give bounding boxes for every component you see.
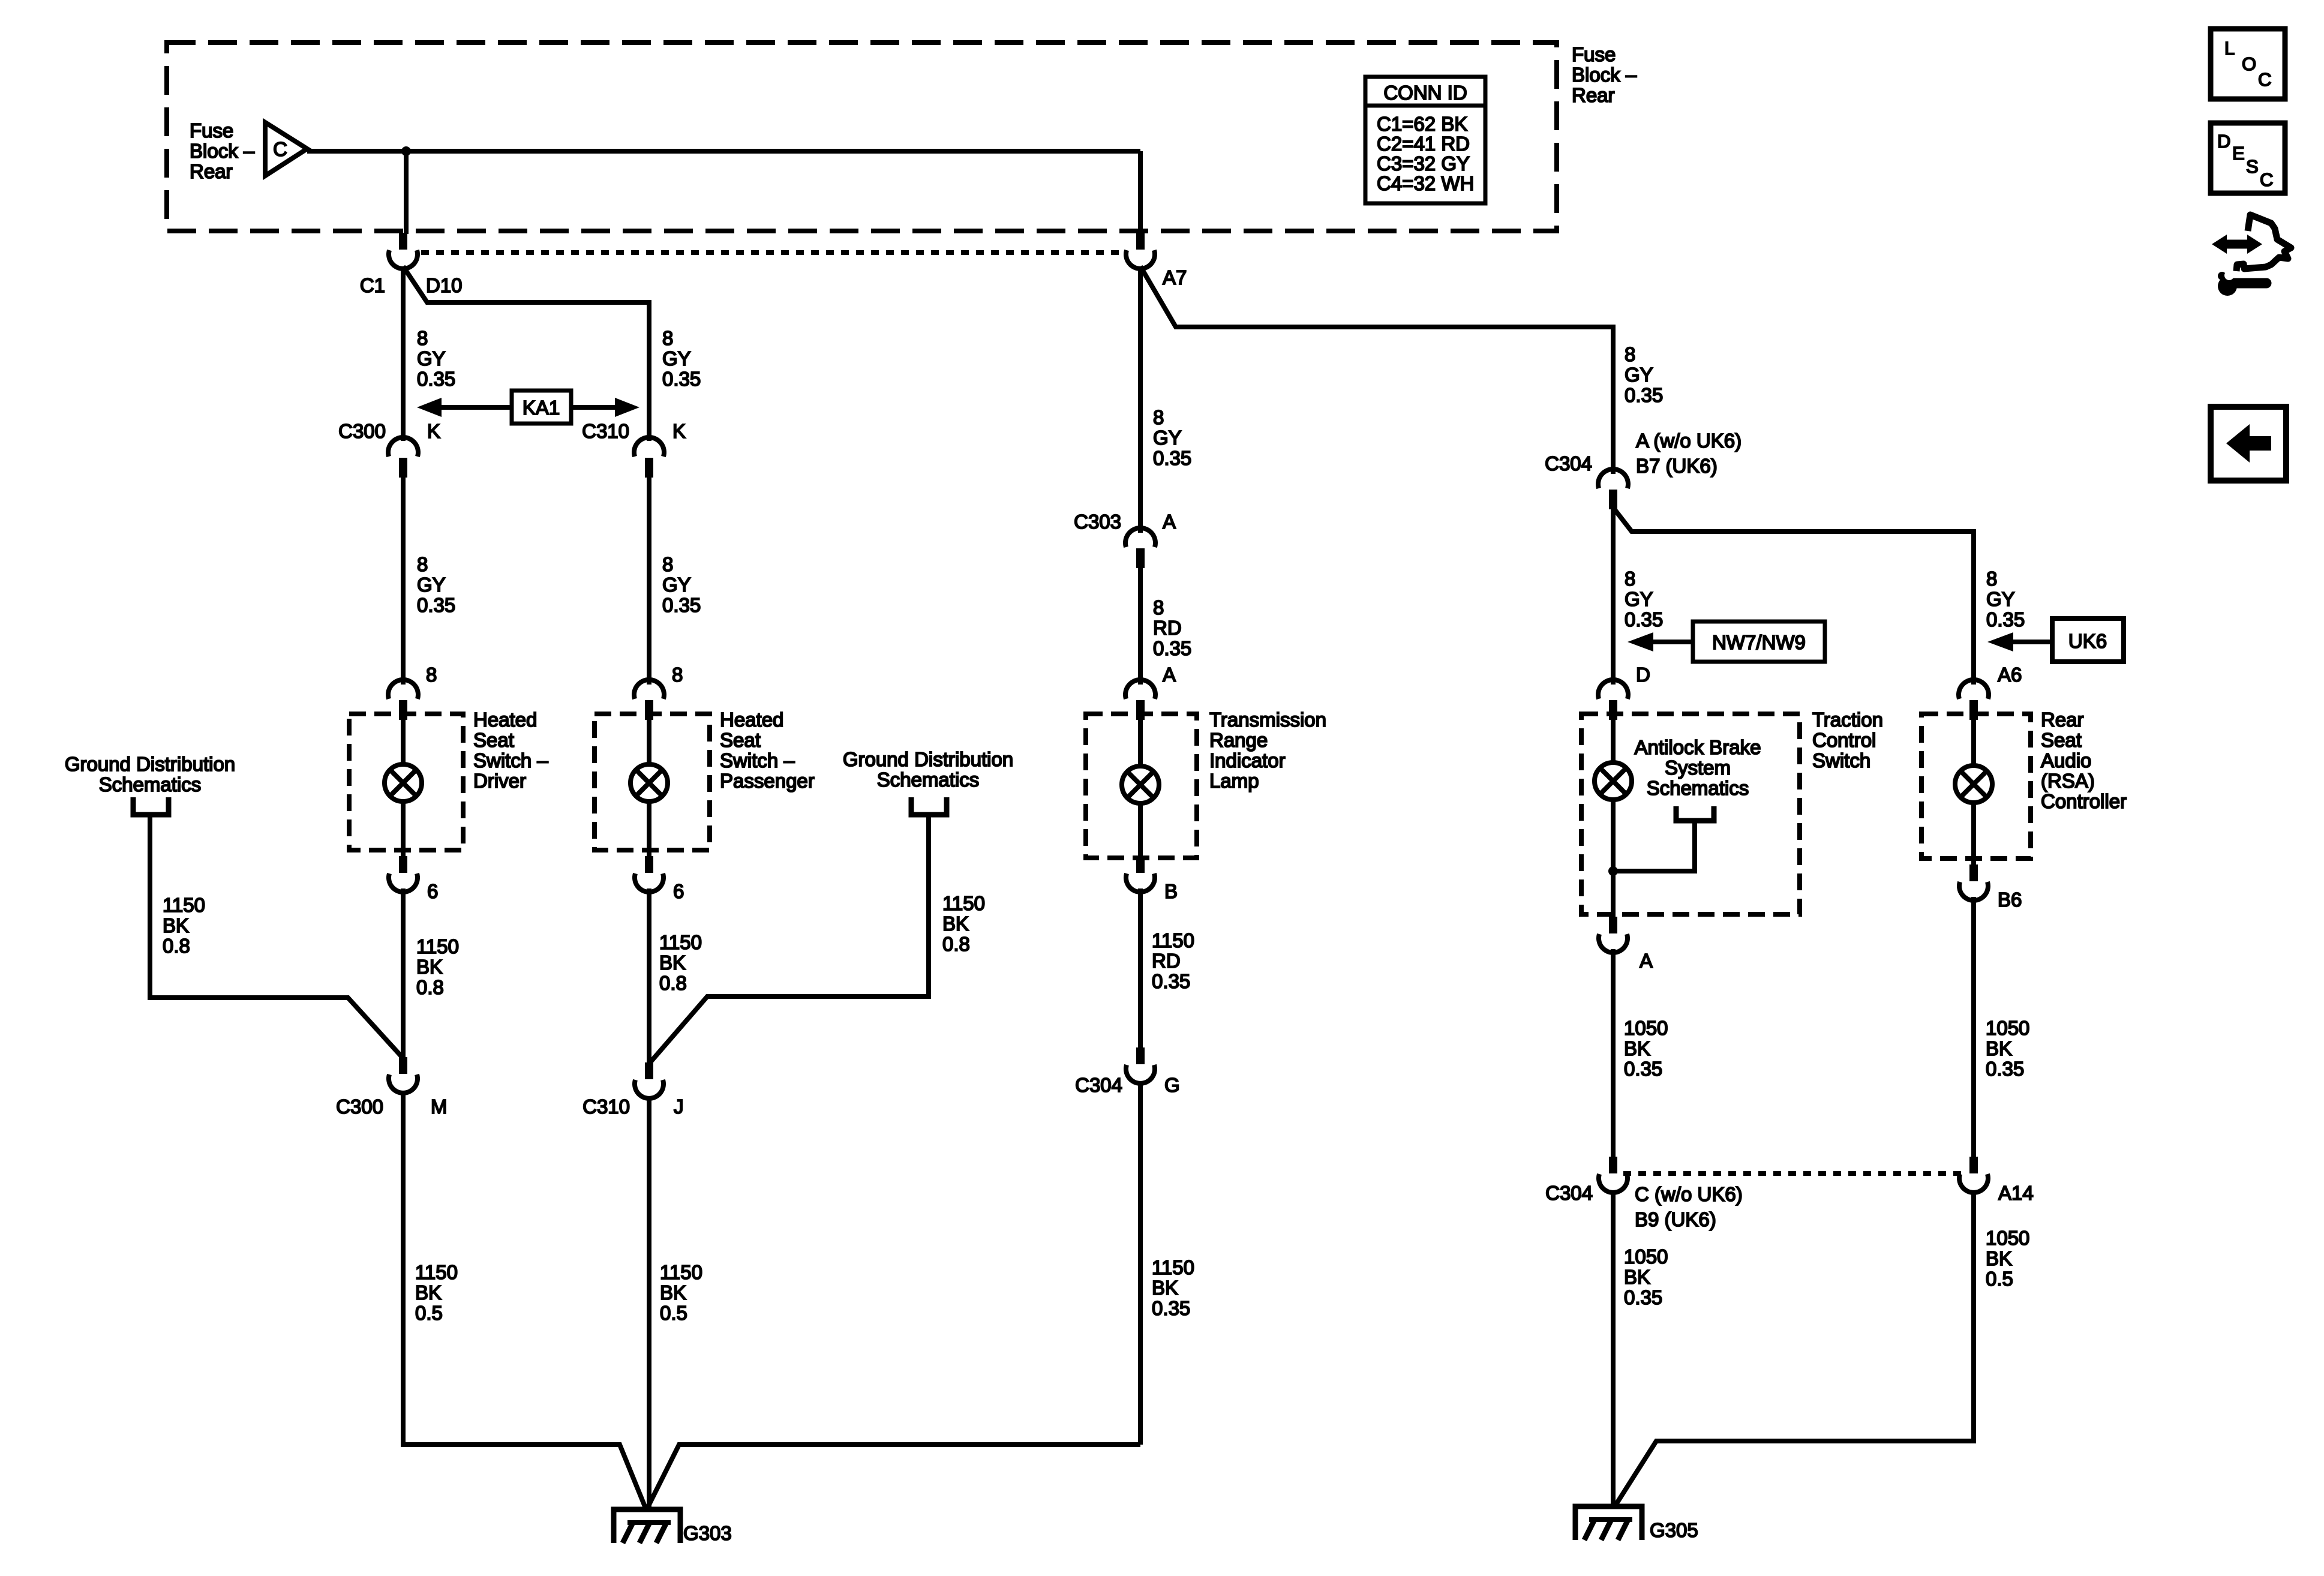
connector C304 pin G — [1126, 1047, 1155, 1083]
ground G305 — [1575, 1506, 1642, 1540]
connector C310 pin J — [635, 1062, 663, 1098]
svg-text:A: A — [1163, 511, 1176, 533]
wire col5 (A14 to G305) — [1616, 1190, 1974, 1505]
wire lamp feed (passenger) — [647, 718, 651, 764]
svg-text:8GY0.35: 8GY0.35 — [417, 553, 455, 616]
indicator lamp (driver switch) — [385, 764, 422, 801]
wire col2 (C310 to switch) — [647, 477, 651, 685]
svg-text:C310: C310 — [582, 1095, 630, 1118]
svg-text:M: M — [431, 1095, 448, 1118]
svg-text:K: K — [427, 420, 440, 442]
CONN ID table — [1365, 77, 1485, 203]
connector pin D (traction switch) — [1598, 680, 1628, 720]
icon back arrow (box + left arrow) — [2211, 407, 2286, 481]
svg-text:C: C — [273, 138, 287, 160]
svg-text:A: A — [1640, 950, 1653, 972]
svg-text:Ground DistributionSchematics: Ground DistributionSchematics — [65, 753, 235, 795]
svg-text:8GY0.35: 8GY0.35 — [1625, 568, 1663, 631]
svg-text:B: B — [1164, 880, 1178, 902]
wire col2 (J to ground G303) — [647, 1096, 651, 1509]
traction control switch (dashed box) — [1581, 714, 1800, 914]
svg-text:A7: A7 — [1163, 266, 1187, 289]
svg-text:C304: C304 — [1545, 1182, 1593, 1204]
wire col3 (G to ground bus) — [1138, 1081, 1143, 1445]
harness range KA1 (arrows + box) — [417, 391, 639, 424]
wire lamp feed (driver) — [401, 718, 406, 764]
svg-text:C (w/o UK6): C (w/o UK6) — [1635, 1183, 1743, 1205]
wire lamp return (traction) — [1611, 800, 1616, 917]
wire fuse output (triangle C to col3 drop) — [307, 149, 1140, 154]
connector boundary line C1-A7 (dotted) — [421, 250, 1125, 255]
svg-text:8RD0.35: 8RD0.35 — [1153, 596, 1191, 659]
svg-text:TransmissionRangeIndicatorLamp: TransmissionRangeIndicatorLamp — [1209, 709, 1326, 792]
indicator lamp (RSA controller) — [1955, 766, 1992, 803]
svg-text:1150BK0.35: 1150BK0.35 — [1152, 1256, 1194, 1319]
svg-text:C300: C300 — [336, 1095, 383, 1118]
wire col3 (A7 to C303) — [1138, 266, 1143, 533]
svg-text:G305: G305 — [1650, 1519, 1698, 1541]
svg-text:1150BK0.8: 1150BK0.8 — [942, 892, 985, 955]
wire lamp feed (trans) — [1138, 718, 1143, 766]
rear seat audio controller (dashed box) — [1921, 714, 2031, 858]
svg-text:DESC: DESC — [2217, 131, 2273, 190]
wire D10 branch to C310 (diagonal) — [403, 266, 649, 441]
indicator lamp (passenger switch) — [630, 764, 668, 801]
connector A7 (fuse block) — [1126, 233, 1155, 269]
connector C1 pin D10 — [389, 233, 418, 269]
wire col4 (A to C304 C) — [1611, 949, 1616, 1158]
svg-text:HeatedSeatSwitch –Driver: HeatedSeatSwitch –Driver — [473, 709, 548, 792]
svg-text:C304: C304 — [1545, 452, 1592, 475]
transmission range indicator lamp — [1122, 766, 1159, 803]
svg-text:1150RD0.35: 1150RD0.35 — [1152, 929, 1194, 992]
connector pin B (trans lamp) — [1126, 856, 1155, 892]
wire lamp feed (traction) — [1611, 718, 1616, 763]
connector C304 pin C/B9 — [1599, 1157, 1628, 1193]
indicator lamp (traction switch) — [1595, 763, 1632, 800]
connector C300 pin M — [389, 1057, 418, 1093]
icon DESC (description box) — [2211, 123, 2285, 193]
connector C303 pin A — [1125, 528, 1155, 568]
junction node (col1 tap) — [401, 146, 411, 156]
svg-text:C303: C303 — [1074, 511, 1121, 533]
svg-text:1150BK0.5: 1150BK0.5 — [415, 1261, 458, 1324]
svg-text:K: K — [672, 420, 686, 442]
svg-text:1050BK0.35: 1050BK0.35 — [1624, 1245, 1668, 1308]
heated seat switch driver (dashed box) — [349, 714, 463, 850]
svg-text:A14: A14 — [1998, 1182, 2034, 1204]
svg-text:FuseBlock –Rear: FuseBlock –Rear — [1572, 43, 1637, 106]
off-page bracket (ground distribution left) — [133, 797, 169, 815]
fuse block - rear (dashed outline) — [167, 43, 1557, 231]
svg-text:D10: D10 — [426, 274, 463, 296]
wire col2 (pin6 to C310 J) — [647, 888, 651, 1064]
connector pin 8 (driver switch) — [388, 680, 418, 720]
svg-text:8GY0.35: 8GY0.35 — [1153, 406, 1191, 469]
connector pin 8 (passenger switch) — [634, 680, 664, 720]
svg-text:C310: C310 — [582, 420, 629, 442]
wire col5 (B6 to A14) — [1971, 897, 1976, 1158]
svg-text:6: 6 — [673, 880, 684, 902]
svg-text:TractionControlSwitch: TractionControlSwitch — [1812, 709, 1883, 772]
svg-text:Antilock BrakeSystemSchematics: Antilock BrakeSystemSchematics — [1635, 736, 1761, 799]
svg-text:B7 (UK6): B7 (UK6) — [1636, 455, 1718, 477]
svg-text:8GY0.35: 8GY0.35 — [662, 327, 701, 390]
svg-text:1150BK0.8: 1150BK0.8 — [659, 931, 702, 994]
svg-text:1050BK0.5: 1050BK0.5 — [1986, 1227, 2029, 1290]
connector pin B6 (RSA) — [1959, 864, 1988, 900]
svg-text:CONN ID: CONN ID — [1383, 82, 1467, 104]
wire col1 (M to ground bus) — [403, 1091, 646, 1509]
svg-text:8GY0.35: 8GY0.35 — [1986, 568, 2025, 631]
heated seat switch passenger (dashed box) — [594, 714, 710, 850]
wire col4 (C304 to D) — [1611, 508, 1616, 685]
svg-text:8GY0.35: 8GY0.35 — [417, 327, 455, 390]
wire lamp feed (RSA) — [1971, 718, 1976, 766]
connector C (fuse block output triangle) — [265, 122, 307, 176]
off-page bracket (ABS schematics) — [1676, 806, 1714, 821]
svg-text:1150BK0.8: 1150BK0.8 — [163, 894, 205, 957]
svg-text:8: 8 — [672, 664, 683, 686]
wire col3 drop (top wire to A7) — [1138, 151, 1143, 234]
svg-text:1150BK0.8: 1150BK0.8 — [416, 935, 459, 998]
connector C304 pin A/B7 — [1598, 469, 1628, 509]
svg-text:LOC: LOC — [2224, 38, 2271, 90]
junction node (ABS jumper) — [1608, 866, 1618, 876]
wire A7 branch to col4 (diagonal) — [1140, 266, 1613, 474]
svg-text:A (w/o UK6): A (w/o UK6) — [1636, 430, 1742, 452]
wire lamp return (passenger) — [647, 801, 651, 858]
svg-text:UK6: UK6 — [2068, 630, 2107, 652]
wire lamp return (RSA) — [1971, 803, 1976, 866]
svg-text:D: D — [1636, 664, 1650, 686]
connector pin 6 (driver switch) — [389, 856, 418, 892]
wire col4 branch to col5 (diagonal) — [1613, 508, 1974, 685]
svg-text:8GY0.35: 8GY0.35 — [1625, 343, 1663, 406]
connector pin 6 (passenger switch) — [635, 856, 663, 892]
wire col1 (C300 to switch) — [401, 477, 406, 685]
harness option NW7/NW9 (box + arrow) — [1628, 622, 1825, 662]
svg-text:C300: C300 — [338, 420, 386, 442]
connector pin A (trans lamp) — [1125, 680, 1155, 720]
wire ground distribution left to C300 M — [150, 815, 403, 1058]
svg-text:G303: G303 — [683, 1522, 732, 1544]
transmission range indicator lamp (dashed box) — [1086, 714, 1197, 858]
wire ground distribution mid to C310 J — [649, 815, 929, 1064]
wire col1 (junction to C1) — [404, 151, 409, 234]
off-page bracket (ground distribution mid) — [911, 797, 947, 815]
svg-text:B6: B6 — [1998, 888, 2022, 911]
wire ground bus right (col3 to G303) — [647, 1445, 1140, 1509]
wire col4 (C304 to G305) — [1611, 1190, 1616, 1506]
wire col3 (C303 to lamp conn) — [1138, 568, 1143, 685]
svg-text:KA1: KA1 — [523, 397, 560, 419]
svg-text:8: 8 — [426, 664, 437, 686]
svg-text:G: G — [1164, 1074, 1180, 1096]
wire col1 (pin6 to C300 M) — [401, 888, 406, 1058]
svg-text:NW7/NW9: NW7/NW9 — [1712, 631, 1806, 653]
svg-text:FuseBlock –Rear: FuseBlock –Rear — [190, 119, 255, 182]
svg-text:C1: C1 — [360, 274, 385, 296]
wire ABS jumper — [1613, 821, 1695, 871]
connector C310 pin K (upper) — [634, 437, 664, 478]
wire lamp return (trans) — [1138, 803, 1143, 858]
wire col3 (B to C304 G) — [1138, 888, 1143, 1049]
svg-text:8GY0.35: 8GY0.35 — [662, 553, 701, 616]
connector boundary line C304-A14 (dotted) — [1623, 1171, 1963, 1176]
svg-text:C304: C304 — [1075, 1074, 1122, 1096]
svg-text:Ground DistributionSchematics: Ground DistributionSchematics — [843, 748, 1013, 791]
svg-text:6: 6 — [427, 880, 438, 902]
svg-text:1050BK0.35: 1050BK0.35 — [1986, 1017, 2029, 1080]
wire lamp return (driver) — [401, 801, 406, 858]
svg-text:1150BK0.5: 1150BK0.5 — [660, 1261, 702, 1324]
connector C300 pin K (upper) — [388, 437, 418, 478]
svg-text:B9 (UK6): B9 (UK6) — [1635, 1208, 1716, 1230]
svg-text:C1=62 BKC2=41 RDC3=32 GYC4=32: C1=62 BKC2=41 RDC3=32 GYC4=32 WH — [1377, 113, 1474, 194]
svg-text:RearSeatAudio(RSA)Controller: RearSeatAudio(RSA)Controller — [2041, 709, 2127, 812]
ground G303 — [614, 1509, 680, 1543]
svg-text:J: J — [674, 1095, 684, 1118]
connector A14 — [1959, 1157, 1988, 1193]
harness option UK6 (box + arrow) — [1987, 619, 2124, 662]
svg-text:HeatedSeatSwitch –Passenger: HeatedSeatSwitch –Passenger — [720, 709, 815, 792]
svg-text:A6: A6 — [1998, 664, 2022, 686]
connector pin A6 (RSA) — [1959, 680, 1989, 720]
icon adjust/repair (double arrow + outline + wrench) — [2212, 215, 2291, 296]
connector pin A (traction switch) — [1599, 917, 1628, 953]
svg-text:A: A — [1163, 664, 1176, 686]
icon LOC (location box) — [2211, 29, 2285, 99]
wire col1 (C1 to C300) — [401, 266, 406, 441]
svg-text:1050BK0.35: 1050BK0.35 — [1624, 1017, 1668, 1080]
